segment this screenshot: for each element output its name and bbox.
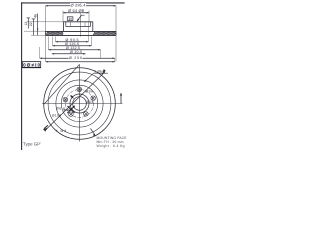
front view: section arrow SW — [43, 128, 48, 132]
front view: bolt leader arrow — [85, 73, 94, 81]
section: 30 box — [67, 17, 73, 21]
section: OD extension line right — [115, 6, 117, 31]
front view: bolt hole bottom-right — [84, 112, 89, 117]
section: hatch left part — [46, 32, 63, 35]
front view: circle 2 — [48, 72, 111, 135]
left dim: extension line band top — [24, 30, 46, 32]
section: dim line 6 (widest) — [46, 61, 115, 63]
front view: bore dim arrows cross — [67, 106, 74, 113]
left dim line 3 — [37, 14, 39, 36]
front view: centre bore outer — [70, 94, 89, 113]
section: hat flange bottom face — [66, 26, 91, 28]
section: hat top face — [63, 21, 92, 23]
svg-text:22: 22 — [29, 22, 33, 26]
front view: bolt hole right — [91, 96, 96, 101]
section: band top line — [46, 30, 117, 32]
frame top border — [21, 2, 125, 4]
svg-text:Type GP': Type GP' — [23, 142, 41, 147]
front view: right up arrow mark — [120, 95, 122, 104]
left dim: extension line band bottom — [31, 34, 46, 36]
section: hat left outer wall — [62, 22, 64, 31]
svg-text:46: 46 — [33, 14, 37, 18]
front view: circle 3 inner braking edge — [56, 80, 103, 127]
section: hat extension line right — [88, 11, 90, 22]
svg-text:12: 12 — [24, 22, 28, 26]
section: flange bolt hole lines — [70, 22, 72, 27]
svg-text:Ø98: Ø98 — [86, 89, 94, 93]
front view: centre bore inner — [73, 97, 87, 111]
section: hatch right part — [93, 32, 116, 35]
section: outer diameter dim line (top) — [46, 5, 117, 7]
section: dim line 5 (with inline text) — [40, 57, 69, 59]
section: hat right inner wall — [89, 22, 91, 27]
section: hat left inner wall — [65, 22, 67, 27]
section: nested dim line 1 — [56, 41, 89, 43]
front view: horizontal centerline — [42, 103, 123, 105]
section: band left edge — [45, 31, 47, 35]
left dim line 1 — [27, 18, 29, 29]
front view: bolt leader underline — [94, 72, 109, 74]
svg-text:Ø6.6: Ø6.6 — [56, 107, 65, 111]
section: slanted leader arrow — [77, 15, 82, 21]
front view: bolt circle dash-dot — [66, 90, 94, 118]
section: hat diameter dim line — [63, 12, 89, 14]
section: nested dim line 4 — [52, 53, 86, 55]
svg-text:Ø 295.4: Ø 295.4 — [71, 2, 87, 7]
left dim: extension line hat top — [27, 21, 64, 23]
front view: outer circle — [44, 68, 116, 140]
front view: section jog diagonal — [44, 64, 80, 104]
svg-text:4 M8: 4 M8 — [56, 129, 67, 133]
left dim line 2 — [32, 19, 34, 36]
front view: bolt hole left — [63, 97, 68, 102]
front view: circle 4 hat edge — [61, 85, 98, 122]
section: band bottom line — [46, 34, 117, 36]
section: band right edge — [115, 31, 117, 35]
front view: vertical centerline — [79, 65, 81, 142]
svg-text:Ø64: Ø64 — [86, 100, 94, 104]
logo box — [22, 62, 40, 68]
section: nested dim line 3 — [48, 49, 100, 51]
front view: bolt hole top — [77, 87, 82, 92]
front view: section diagonal line — [45, 72, 105, 131]
svg-text:5 Ø6.6: 5 Ø6.6 — [94, 69, 105, 73]
logo box bottom edge — [22, 67, 41, 69]
section: OD extension line left — [45, 6, 47, 31]
section: nested dim line 2 — [53, 45, 92, 47]
section: outer diameter text backing — [70, 3, 86, 7]
svg-text:30: 30 — [68, 17, 72, 21]
frame left border — [21, 2, 23, 150]
svg-text:Ø 256: Ø 256 — [69, 56, 82, 60]
front view: bolt hole bottom-left — [69, 112, 74, 117]
notes leader line — [91, 129, 95, 135]
front view: bore leader horizontal arrow — [64, 109, 72, 111]
front view: section arrow NE — [102, 69, 106, 72]
section: axis centerline — [80, 14, 82, 37]
section: hat extension line left — [62, 11, 64, 22]
svg-text:Ø 64 Ø8: Ø 64 Ø8 — [68, 8, 85, 13]
svg-text:Ø 10.5: Ø 10.5 — [70, 50, 82, 54]
svg-text:Weight : 6.4 Kg: Weight : 6.4 Kg — [97, 144, 125, 148]
notes leader arrow — [93, 133, 96, 136]
section: hat right outer wall — [92, 22, 94, 31]
